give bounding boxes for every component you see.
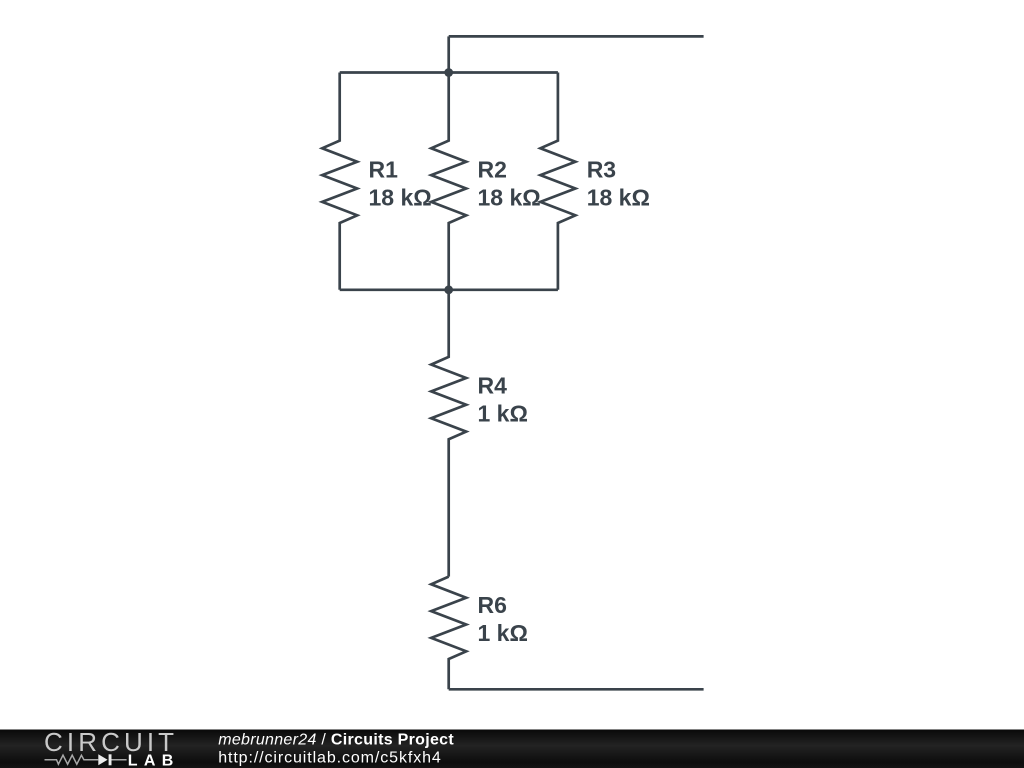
svg-text:LAB: LAB [128, 752, 180, 768]
svg-text:R6: R6 [478, 592, 507, 618]
svg-text:1 kΩ: 1 kΩ [478, 620, 528, 646]
logo diode cathode bar [109, 754, 112, 765]
wire bottom horizontal [449, 688, 704, 691]
node junction top [444, 68, 453, 77]
svg-text:18 kΩ: 18 kΩ [587, 185, 650, 211]
svg-text:mebrunner24 / Circuits Project: mebrunner24 / Circuits Project [218, 732, 454, 749]
svg-text:R3: R3 [587, 157, 616, 183]
svg-text:R4: R4 [478, 373, 508, 399]
resistor R2 [431, 73, 541, 290]
node junction bottom [444, 285, 453, 294]
resistor R4 [431, 290, 528, 470]
wire top rail [340, 71, 558, 74]
logo diode triangle [98, 754, 107, 765]
svg-text:18 kΩ: 18 kΩ [369, 185, 432, 211]
wire between R4 and R6 [447, 470, 450, 577]
svg-text:1 kΩ: 1 kΩ [478, 401, 528, 427]
wire bottom rail [340, 288, 558, 291]
resistor R1 [322, 73, 432, 290]
svg-text:R1: R1 [369, 157, 399, 183]
wire top horizontal [449, 35, 704, 38]
resistor R6 [431, 577, 528, 690]
svg-text:R2: R2 [478, 157, 507, 183]
footer bar [0, 730, 1024, 768]
wire vertical feed [447, 36, 450, 72]
svg-text:http://circuitlab.com/c5kfxh4: http://circuitlab.com/c5kfxh4 [218, 750, 442, 767]
CircuitLab logo resistor-diode symbol [45, 755, 127, 764]
svg-text:18 kΩ: 18 kΩ [478, 185, 541, 211]
resistor R3 [540, 73, 650, 290]
